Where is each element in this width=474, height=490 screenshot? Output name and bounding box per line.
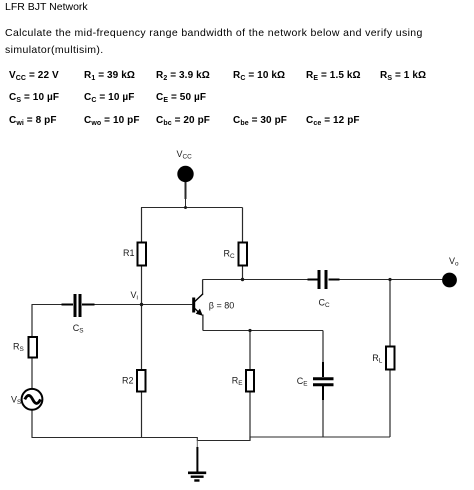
svg-text:Vo: Vo [449,256,459,268]
svg-text:R2: R2 [122,376,134,386]
svg-text:RL: RL [372,353,383,365]
svg-text:RC: RC [224,249,236,261]
svg-text:R1: R1 [123,248,135,258]
svg-text:RS: RS [13,342,24,354]
svg-text:Vi: Vi [131,290,138,302]
svg-text:CC: CC [319,298,331,310]
svg-text:CE: CE [297,376,308,388]
svg-text:VS: VS [11,395,21,407]
svg-text:β = 80: β = 80 [209,301,234,311]
svg-text:VCC: VCC [177,149,193,161]
svg-text:RE: RE [232,376,243,388]
svg-text:CS: CS [73,323,84,335]
